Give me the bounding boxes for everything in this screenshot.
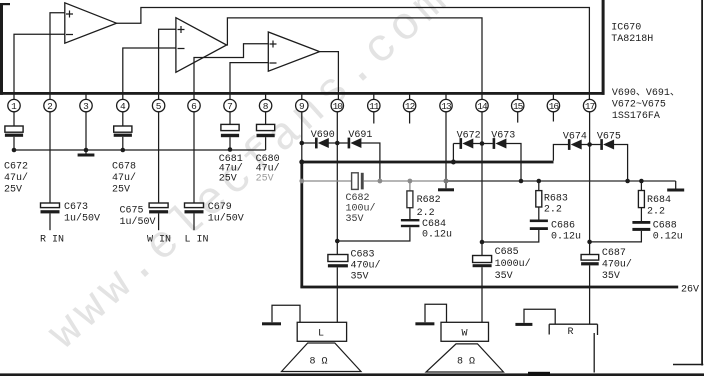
svg-text:26V: 26V [681,285,699,296]
svg-text:C673: C673 [64,202,88,213]
diode V672 [453,131,492,149]
speaker W ground [415,304,446,325]
svg-text:3: 3 [83,101,89,112]
node junction R684 y181 [639,179,644,184]
svg-text:2.2: 2.2 [544,205,562,216]
svg-text:C686: C686 [551,221,575,232]
wire pin15 stub [517,111,519,122]
svg-text:C678: C678 [112,162,136,173]
supply bus thick y287 [300,286,678,289]
wire bottom right stub [673,364,703,366]
svg-text:470u/: 470u/ [602,259,632,271]
node junction V675 y181 [625,179,630,184]
node junction pin14 diode row [480,141,485,146]
svg-text:100u/: 100u/ [346,203,376,215]
svg-text:2.2: 2.2 [647,207,665,218]
pin 17 [583,99,595,112]
diode V691 [348,130,380,181]
label IC670 [611,23,653,46]
pin 16 [547,95,559,113]
wire op3 output to pin10 [320,52,339,100]
node grey junction pin9 y181 [299,179,304,184]
node -26V label [681,285,699,296]
pin 14 [476,99,488,112]
pin 12 [403,95,415,113]
speaker L ground [262,305,300,325]
svg-text:V675: V675 [597,132,621,143]
svg-text:10: 10 [333,101,344,112]
wire pin7 to C681 [229,111,231,124]
capacitor C681 [219,124,243,184]
svg-text:470u/: 470u/ [351,260,381,272]
wire op3 plus from pin6 [194,44,268,100]
wire ac-ground rail y150 [14,149,266,151]
wire op1 plus from pin2 [50,13,65,100]
speaker L cone [282,343,362,372]
svg-text:8: 8 [263,101,269,112]
svg-text:35V: 35V [346,214,364,225]
svg-text:V691: V691 [348,130,372,141]
svg-text:4: 4 [120,101,126,112]
op-amp U1a [65,3,117,43]
feedback bus thick y162 [302,161,554,164]
wire pin11 stub [373,111,375,123]
pin 10 [331,99,343,112]
svg-text:15: 15 [513,101,524,112]
svg-text:V690、V691、: V690、V691、 [612,88,680,99]
capacitor C682 [346,173,380,225]
pin 3 [80,95,92,113]
node junction pin3 rail [84,148,89,153]
speaker R box partial [549,324,597,338]
svg-text:C679: C679 [208,202,232,213]
wire op2 minus from pin4 [123,48,176,100]
speaker W cone [426,344,504,372]
svg-text:V674: V674 [563,132,587,143]
svg-text:R682: R682 [417,195,441,206]
border bottom edge [0,372,704,376]
capacitor C675 [120,203,169,230]
wire pin12 stub [409,111,411,123]
capacitor C683 [328,250,381,323]
node W IN [147,235,171,246]
node junction R683 y181 [537,179,542,184]
svg-text:5: 5 [156,101,162,112]
svg-text:25V: 25V [112,185,130,196]
wire pin9 thick drop [300,161,303,288]
svg-text:R683: R683 [544,194,568,205]
capacitor C685 [473,247,531,322]
ground right end rail [667,181,684,192]
svg-text:V672~V675: V672~V675 [612,100,666,111]
wire pin17 down [589,111,591,254]
node junction pin17 C688 [587,240,592,245]
node junction diode riser bus [451,160,456,165]
wire pin1 to C672 [13,111,15,126]
svg-text:1SS176FA: 1SS176FA [612,111,660,122]
node junction V673 y181 [519,179,524,184]
node grey junction pin13 y181 [444,179,449,184]
diode V674 [563,132,601,150]
wire op1 output to pin17 [117,8,590,100]
resistor R682 [407,181,441,219]
wire pin14 down [481,111,483,255]
svg-text:C688: C688 [653,221,677,232]
speaker W box [441,322,489,341]
pin 1 [8,99,20,112]
svg-text:C684: C684 [422,219,446,230]
svg-text:R684: R684 [647,195,671,206]
ground pin3 [78,154,95,157]
svg-text:35V: 35V [495,271,513,282]
capacitor C684 [337,219,452,241]
node junction pin17 diode row [587,142,592,147]
svg-text:L: L [318,329,324,340]
IC670 box outline [0,0,605,95]
svg-text:1000u/: 1000u/ [495,258,531,270]
capacitor C672 [4,126,28,196]
wire pin2 down [49,111,51,203]
border right edge [701,0,703,366]
wire pin13 down [445,111,447,188]
capacitor C688 [590,221,683,243]
svg-text:C687: C687 [602,248,626,259]
svg-text:V690: V690 [311,130,335,141]
svg-text:L IN: L IN [185,235,209,246]
pin 15 [512,95,524,113]
wire pin10 down [336,111,338,254]
svg-text:R IN: R IN [40,235,64,246]
svg-text:13: 13 [441,101,452,112]
wire node rail y181 mid grey [380,180,446,182]
node L IN [185,235,209,246]
wire op2 output to pin14 [227,18,482,100]
svg-text:25V: 25V [4,185,22,196]
capacitor C680 [256,124,280,184]
wire riser bus to V674 row [553,145,568,161]
svg-text:47u/: 47u/ [112,172,136,184]
resistor R684 [638,181,671,221]
node junction pin4 rail [121,148,126,153]
capacitor C678 [112,126,136,196]
svg-text:R: R [568,327,574,338]
capacitor C673 [41,202,101,230]
ground pin13 [438,188,454,191]
svg-text:C675: C675 [120,206,144,217]
pin 11 [368,95,380,113]
svg-text:1: 1 [11,101,17,112]
svg-text:TA8218H: TA8218H [611,34,653,45]
capacitor C687 [581,248,632,324]
svg-text:17: 17 [585,101,595,112]
node junction pin1 rail [12,148,17,153]
svg-text:C682: C682 [346,193,370,204]
node junction pin9 bus [299,160,304,165]
svg-text:11: 11 [369,101,380,112]
diode V690 [302,130,348,148]
svg-text:7: 7 [227,101,233,112]
pin 9 [296,95,308,113]
wire pin3 to ground [85,111,87,153]
svg-text:2.2: 2.2 [417,208,435,219]
op-amp U1b [176,18,227,73]
svg-text:47u/: 47u/ [4,172,28,184]
svg-text:16: 16 [549,101,560,112]
wire pin16 stub [552,111,554,121]
node grey junction V691 y181 [378,179,383,184]
svg-text:9: 9 [299,101,305,112]
wire op3 minus from pin7 [230,63,268,100]
svg-text:1u/50V: 1u/50V [120,216,156,228]
wire node rail y181 left grey [302,180,352,182]
svg-text:25V: 25V [256,173,274,184]
wire pin8 to C680 [265,111,267,124]
pin 2 [44,99,56,112]
svg-text:0.12u: 0.12u [551,232,581,243]
pin 13 [440,95,452,113]
watermark [39,0,461,360]
svg-text:V672: V672 [457,131,481,142]
pin 7 [224,99,236,112]
svg-text:14: 14 [477,101,488,112]
svg-text:W IN: W IN [147,235,171,246]
pin 8 [259,95,271,113]
node junction pin10 diode row [335,141,340,146]
label diode types [612,88,680,122]
speaker L box [297,322,346,341]
wire pin5 down [158,111,160,203]
wire riser bus to V672 row [452,144,454,162]
svg-text:1u/50V: 1u/50V [64,213,100,225]
diode V673 [491,131,521,182]
svg-text:35V: 35V [351,272,369,283]
pin 4 [117,99,129,112]
wire op2 plus from pin5 [159,29,176,100]
wire node rail y181 right [446,180,676,182]
node junction pin7 rail [228,147,233,152]
svg-text:0.12u: 0.12u [653,232,683,243]
svg-text:V673: V673 [491,131,515,142]
node junction pin14 C686 [480,240,485,245]
svg-text:8 Ω: 8 Ω [457,357,475,368]
wire pin4 to C678 [122,111,124,126]
node junction pin9 diode row [300,141,305,146]
resistor R683 [536,181,568,220]
svg-text:35V: 35V [602,271,620,282]
capacitor C679 [185,202,244,230]
wire pin9 down [301,111,303,162]
svg-text:W: W [462,329,468,340]
svg-text:8 Ω: 8 Ω [310,357,328,368]
node grey junction R682 y181 [408,179,413,184]
wire op1 minus from pin1 [14,34,65,100]
svg-text:0.12u: 0.12u [422,230,452,241]
diode V675 [597,132,628,182]
svg-text:C685: C685 [495,247,519,258]
pin 6 [188,99,200,112]
svg-text:25V: 25V [219,173,237,184]
svg-text:1u/50V: 1u/50V [208,213,244,225]
svg-text:2: 2 [47,101,53,112]
pin 5 [152,99,164,112]
node junction pin10 C684 [335,239,340,244]
wire pin6 down [193,111,195,203]
svg-text:C672: C672 [4,162,28,173]
wire speaker R drop [593,333,595,373]
node R IN [40,235,64,246]
svg-text:IC670: IC670 [611,23,641,34]
speaker R ground [515,309,555,326]
op-amp U1c [268,32,319,71]
svg-text:6: 6 [191,101,197,112]
capacitor C686 [482,220,581,243]
svg-text:12: 12 [405,101,416,112]
svg-text:C683: C683 [351,250,375,261]
